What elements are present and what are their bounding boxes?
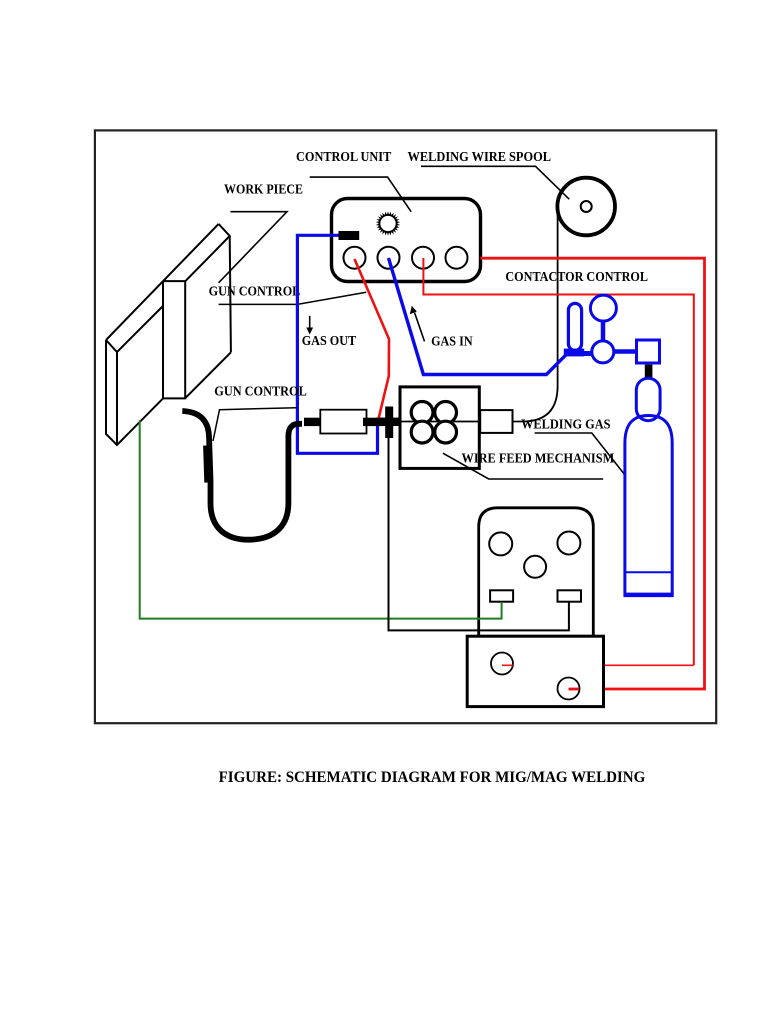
torch cable — [182, 411, 302, 540]
welding wire spool — [557, 178, 615, 236]
wire from spool down — [513, 214, 558, 422]
leader welding wire spool — [421, 166, 569, 199]
wire feed mechanism box — [400, 387, 479, 469]
green work lead — [140, 420, 502, 618]
leader welding gas — [535, 433, 637, 490]
svg-text:WELDING WIRE SPOOL: WELDING WIRE SPOOL — [408, 149, 552, 164]
regulator bar under tube — [564, 349, 584, 357]
spool hub — [581, 201, 592, 212]
svg-text:GUN CONTROL: GUN CONTROL — [214, 384, 306, 399]
control unit knob 4 — [446, 247, 468, 269]
svg-text:FIGURE: SCHEMATIC DIAGRAM FOR: FIGURE: SCHEMATIC DIAGRAM FOR MIG/MAG WE… — [219, 769, 646, 786]
leader work piece — [219, 212, 287, 283]
svg-text:GAS OUT: GAS OUT — [302, 333, 357, 348]
leader wire feed mechanism — [443, 453, 603, 479]
blue gas-out wire — [297, 235, 377, 453]
work piece front slab — [163, 224, 231, 399]
red wire B bottom segment — [513, 664, 694, 666]
connector block on control unit — [339, 231, 360, 240]
lower unit terminal 1 — [491, 653, 513, 675]
svg-text:GUN CONTROL: GUN CONTROL — [209, 284, 301, 299]
power source socket left — [490, 590, 513, 601]
feed roller 1 — [411, 402, 433, 424]
torch terminal bar left — [304, 418, 323, 426]
power source dial 1 — [489, 532, 512, 555]
junction cross — [377, 407, 404, 439]
cylinder valve block — [645, 365, 653, 379]
leader control unit — [310, 177, 411, 212]
svg-text:CONTROL UNIT: CONTROL UNIT — [296, 149, 391, 164]
gas cylinder body — [625, 416, 672, 595]
cylinder foot line — [625, 571, 672, 573]
svg-text:WELDING GAS: WELDING GAS — [521, 417, 610, 432]
svg-text:CONTACTOR CONTROL: CONTACTOR CONTROL — [505, 269, 648, 284]
power source dial 3 — [524, 556, 546, 578]
gas out arrow — [306, 316, 313, 335]
torch connector block — [320, 410, 366, 434]
power source lower unit — [467, 636, 603, 706]
svg-text:WIRE FEED MECHANISM: WIRE FEED MECHANISM — [462, 451, 615, 466]
red wire A contactor — [481, 258, 705, 689]
red wire B contactor — [423, 258, 693, 665]
feed roller 3 — [411, 421, 433, 443]
red stub terminal 2 — [569, 688, 580, 691]
inlet guide block — [480, 410, 512, 433]
gear icon — [376, 211, 400, 236]
control unit knob 2 — [378, 247, 400, 269]
wire into feeder — [404, 421, 480, 423]
blue gas-in wire — [389, 258, 567, 375]
svg-text:GAS IN: GAS IN — [431, 334, 473, 349]
control unit U1 — [332, 199, 481, 282]
black power lead from torch junction — [389, 437, 569, 630]
control unit knob 3 — [412, 247, 434, 269]
regulator body circle — [592, 341, 614, 363]
regulator stem — [601, 321, 606, 341]
cylinder neck — [636, 378, 660, 421]
power source dial 2 — [557, 532, 580, 555]
regulator flow tube — [568, 303, 581, 350]
lower unit terminal 2 — [558, 678, 580, 700]
leader gun control upper — [219, 292, 367, 304]
border frame — [95, 130, 716, 723]
torch handle — [207, 446, 208, 483]
work piece back slab — [106, 224, 219, 445]
feed wire through box — [400, 421, 479, 423]
cylinder bottom edge — [624, 593, 674, 598]
feed roller 4 — [435, 421, 457, 443]
svg-text:WORK PIECE: WORK PIECE — [224, 182, 303, 197]
torch terminal bar right — [363, 418, 383, 426]
power source socket right — [558, 590, 582, 601]
power source upper unit — [479, 508, 594, 637]
leader gun control lower — [213, 408, 297, 441]
regulator outlet bar — [614, 349, 637, 354]
regulator gauge — [590, 295, 616, 321]
feed roller 2 — [435, 402, 457, 424]
regulator outlet square — [637, 340, 660, 363]
gas in arrow — [410, 306, 425, 342]
control unit knob 1 — [344, 247, 366, 269]
red gun trigger wire — [355, 259, 390, 418]
red stub terminal 1 — [502, 664, 513, 666]
